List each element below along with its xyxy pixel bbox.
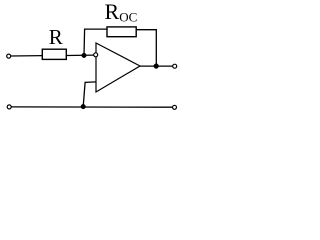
wire: non-inverting input from bottom rail — [83, 82, 96, 107]
wire: resistor R to op-amp inverting input — [66, 54, 94, 56]
node: inverting input / feedback junction — [82, 53, 87, 58]
resistor R — [42, 49, 66, 59]
wire: op-amp output — [140, 65, 173, 67]
resistor Roc — [107, 27, 136, 37]
bottom left terminal — [7, 105, 11, 109]
node: non-inverting input on bottom rail — [81, 104, 86, 109]
wire: input terminal to resistor R — [11, 55, 43, 57]
wire: feedback left riser (junction up and right to Roc) — [84, 29, 107, 55]
svg-text:R: R — [49, 25, 63, 49]
inverting input bubble — [94, 53, 98, 57]
output terminal (right) — [173, 64, 177, 68]
node: output / feedback junction — [154, 64, 159, 69]
wire: bottom rail — [11, 106, 173, 108]
op-amp U1 — [96, 43, 140, 92]
input terminal (top left) — [7, 54, 11, 58]
wire: feedback right riser (Roc right to output node) — [136, 30, 156, 66]
bottom right terminal — [173, 105, 177, 109]
